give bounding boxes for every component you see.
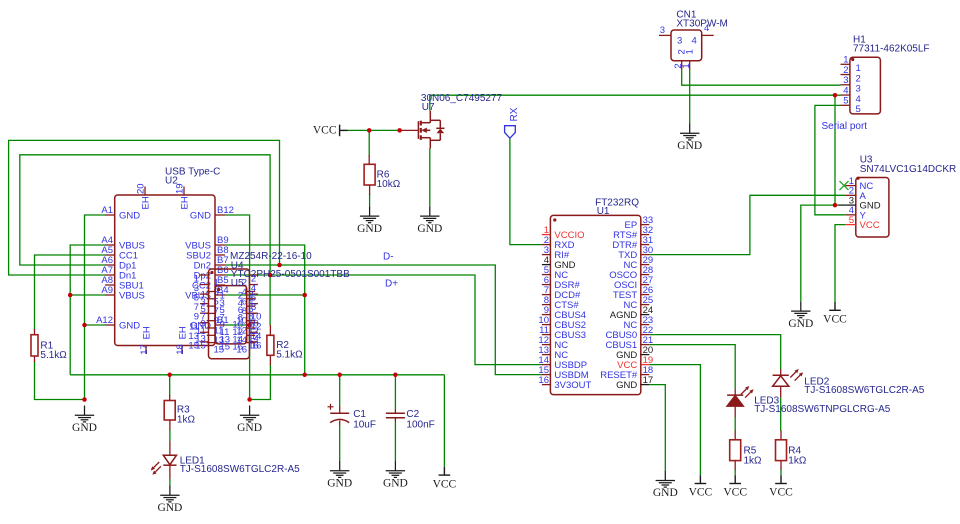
svg-text:GND: GND bbox=[72, 422, 97, 434]
LED LED1 TJ-S1608SW6TGLC2R-A5 bbox=[163, 455, 176, 465]
wire A7 Dn1 loop bbox=[9, 140, 280, 275]
svg-text:EH: EH bbox=[142, 326, 153, 339]
wire TXD to U3 A bbox=[649, 195, 845, 254]
junction C1 rail bbox=[337, 373, 342, 378]
C1 leads bbox=[339, 406, 341, 413]
svg-text:GND: GND bbox=[653, 487, 678, 499]
U5 pin 5 bbox=[207, 305, 216, 307]
U4 pin 13 bbox=[200, 331, 209, 333]
wire A1 GND to left vertical bbox=[85, 215, 106, 400]
svg-text:17: 17 bbox=[139, 344, 150, 355]
U1 pin 6 DSR# bbox=[542, 284, 551, 286]
power VCC R4 bbox=[775, 475, 787, 483]
svg-text:15: 15 bbox=[195, 341, 206, 352]
U2 pin A6 Dp1 bbox=[105, 264, 115, 266]
U2 pin B8 SBU2 bbox=[215, 254, 225, 256]
U1 pin 20 GND bbox=[641, 354, 650, 356]
U2 pin B5 CC2 bbox=[215, 284, 225, 286]
U4 pin 6 bbox=[249, 293, 258, 295]
U5 pin 4 bbox=[247, 298, 256, 300]
U1 pin 23 NC bbox=[641, 324, 650, 326]
LED2 leads bbox=[780, 369, 782, 375]
svg-text:D+: D+ bbox=[385, 279, 398, 290]
svg-text:U5: U5 bbox=[231, 278, 244, 289]
svg-text:4: 4 bbox=[704, 23, 709, 34]
CN1 pin 2 bbox=[681, 61, 683, 70]
U1 pin 7 DCD# bbox=[542, 294, 551, 296]
wire CN1 pin 2 to H1 pin 3 bbox=[682, 70, 841, 85]
R4 leads bbox=[780, 430, 782, 439]
wire A6 Dp1 loop bbox=[20, 155, 270, 275]
wire drain to H1 pin 4 bbox=[430, 94, 841, 96]
U5 pin 15 bbox=[207, 342, 216, 344]
U3 no-connect X on pin 1 bbox=[840, 181, 849, 190]
wire B1 GND bbox=[225, 324, 250, 326]
U4 pin 4 bbox=[249, 284, 258, 286]
svg-text:VCC: VCC bbox=[433, 478, 457, 490]
wire R5 to VCC bbox=[734, 470, 736, 476]
wire pin 17 GND bbox=[649, 385, 665, 471]
wire C1 top bbox=[339, 375, 341, 406]
U1 pin 30 TXD bbox=[641, 254, 650, 256]
junction H1 pin4 branch bbox=[833, 93, 838, 98]
junction R6 VCC bbox=[367, 128, 372, 133]
U2 pin A8 SBU1 bbox=[105, 284, 115, 286]
svg-text:GND: GND bbox=[327, 478, 352, 490]
connector U2 USB Type-C body bbox=[115, 195, 215, 346]
U1 pin 15 USBDM bbox=[542, 374, 551, 376]
junction B4 VBUS bbox=[302, 293, 307, 298]
svg-text:VCC: VCC bbox=[769, 487, 793, 499]
U2 pin B1 GND bbox=[215, 324, 225, 326]
U4 pin 9 bbox=[200, 312, 209, 314]
resistor R6 10k bbox=[364, 164, 375, 185]
U5 pin 6 bbox=[247, 305, 256, 307]
R6 leads bbox=[368, 155, 370, 164]
svg-text:5.1kΩ: 5.1kΩ bbox=[276, 350, 303, 361]
wire RX to RXD bbox=[510, 138, 542, 244]
U1 pin 28 OSCO bbox=[641, 274, 650, 276]
U5 pin 12 bbox=[247, 327, 256, 329]
wire A4 VBUS bbox=[70, 245, 105, 375]
U5 pin 16 bbox=[247, 342, 256, 344]
svg-text:GND: GND bbox=[383, 478, 408, 490]
U4 pin 12 bbox=[249, 322, 258, 324]
R3 leads bbox=[169, 395, 171, 401]
svg-text:1kΩ: 1kΩ bbox=[788, 455, 807, 466]
wire LED1 to GND bbox=[169, 479, 171, 486]
U1 pin 14 USBDP bbox=[542, 364, 551, 366]
svg-text:EH: EH bbox=[141, 196, 152, 209]
U4 pin 1 bbox=[200, 274, 209, 276]
wire VCC to gate bbox=[348, 129, 400, 131]
svg-text:GND: GND bbox=[119, 210, 140, 221]
svg-text:U7: U7 bbox=[422, 102, 435, 113]
U1 pin 10 CBUS2 bbox=[542, 324, 551, 326]
R2 leads bbox=[269, 325, 271, 336]
H1 pin 1 bbox=[841, 63, 850, 65]
wire pin 19 VCC bbox=[649, 365, 700, 476]
junction R3 on rail bbox=[167, 373, 172, 378]
svg-text:19: 19 bbox=[175, 183, 186, 194]
svg-text:Serial port: Serial port bbox=[822, 121, 868, 132]
wire VBUS rail bbox=[70, 374, 444, 376]
U1 pin 12 NC bbox=[542, 344, 551, 346]
U4 pin 3 bbox=[200, 284, 209, 286]
svg-text:GND: GND bbox=[119, 320, 140, 331]
U1 pin 4 GND bbox=[542, 264, 551, 266]
CN1 pin 3 bbox=[659, 34, 671, 36]
U3 pin 5 VCC bbox=[845, 224, 856, 226]
svg-text:1kΩ: 1kΩ bbox=[744, 455, 763, 466]
LED1 emission arrows bbox=[154, 462, 160, 468]
junction C2 rail bbox=[393, 373, 398, 378]
svg-text:16: 16 bbox=[248, 341, 259, 352]
R1 leads bbox=[34, 329, 36, 335]
svg-text:VCC: VCC bbox=[860, 220, 880, 231]
power VCC left bbox=[340, 125, 348, 137]
connector U5 YTC2PH25-0501S001TBB body bbox=[215, 286, 247, 344]
U4 pin 2 bbox=[249, 274, 258, 276]
svg-text:A12: A12 bbox=[96, 315, 113, 326]
U4 pin 16 bbox=[249, 341, 258, 343]
U4 pin 15 bbox=[200, 341, 209, 343]
wire D- net bbox=[225, 265, 542, 375]
wire R3 top bbox=[169, 375, 171, 396]
U1 pin 2 RXD bbox=[542, 244, 551, 246]
junction A9 VBUS bbox=[68, 293, 73, 298]
U5 pin 11 bbox=[207, 327, 216, 329]
U1 pin 19 VCC bbox=[641, 364, 650, 366]
U5 pin 13 bbox=[207, 334, 216, 336]
svg-text:GND: GND bbox=[237, 422, 262, 434]
svg-text:U1: U1 bbox=[597, 206, 610, 217]
junction B1 GND bbox=[247, 323, 252, 328]
U2 pin 18 EH bottom bbox=[181, 346, 183, 355]
U2 pin A7 Dn1 bbox=[105, 274, 115, 276]
wire B4 VBUS bbox=[225, 294, 305, 296]
R5 leads bbox=[734, 430, 736, 439]
svg-text:D-: D- bbox=[383, 252, 394, 263]
connector CN1 XT30PW-M body bbox=[671, 30, 702, 61]
junction VBUS rail right bbox=[302, 373, 307, 378]
H1 pin 3 bbox=[841, 84, 850, 86]
U2 pin B12 GND bbox=[215, 214, 225, 216]
svg-text:3: 3 bbox=[677, 36, 682, 47]
U1 pin 29 NC bbox=[641, 264, 650, 266]
U5 pin 3 bbox=[207, 298, 216, 300]
svg-text:VCC: VCC bbox=[823, 314, 847, 326]
U2 pin A9 VBUS bbox=[105, 294, 115, 296]
svg-text:VCC: VCC bbox=[313, 125, 337, 137]
U5 pin 8 bbox=[247, 312, 256, 314]
svg-text:TJ-S1608SW6TGLC2R-A5: TJ-S1608SW6TGLC2R-A5 bbox=[804, 385, 924, 396]
svg-text:16: 16 bbox=[538, 375, 549, 386]
U1 pin 22 CBUS0 bbox=[641, 334, 650, 336]
ground U3 bbox=[791, 301, 810, 317]
junction D- bbox=[277, 263, 282, 268]
svg-text:VBUS: VBUS bbox=[119, 290, 145, 301]
junction R2 GND bbox=[247, 397, 252, 402]
svg-text:A9: A9 bbox=[101, 285, 113, 296]
U4 pin 5 bbox=[200, 293, 209, 295]
power VCC U3 bbox=[829, 302, 841, 310]
wire R3 to LED1 bbox=[169, 429, 171, 441]
U1 pin 33 EP bbox=[641, 224, 650, 226]
U2 pin B6 Dp2 bbox=[215, 274, 225, 276]
U4 pin 14 bbox=[249, 331, 258, 333]
hierarchical label RX bbox=[505, 126, 516, 139]
U1 pin 9 CBUS4 bbox=[542, 314, 551, 316]
svg-text:1kΩ: 1kΩ bbox=[177, 414, 196, 425]
wire R4 to VCC bbox=[780, 470, 782, 476]
resistor R4 1k bbox=[776, 440, 787, 461]
svg-text:16: 16 bbox=[232, 342, 243, 353]
U1 pin 1 VCCIO bbox=[542, 234, 551, 236]
U1 pin1 marker bbox=[553, 218, 556, 221]
wire R2 bottom to GND bbox=[250, 364, 271, 400]
svg-text:18: 18 bbox=[175, 344, 186, 355]
wire A12 GND bbox=[85, 324, 106, 326]
ground R6 bbox=[360, 206, 379, 222]
IC U1 FT232RQ body bbox=[550, 215, 640, 394]
power VCC R5 bbox=[729, 475, 741, 483]
CN1 pin 4 bbox=[702, 34, 714, 36]
junction D+ bbox=[268, 273, 273, 278]
ground C1 bbox=[330, 461, 349, 477]
power VCC pin19 bbox=[695, 475, 707, 483]
svg-text:15: 15 bbox=[220, 342, 231, 353]
U7 gate lead bbox=[400, 129, 418, 131]
wire B9 VBUS bbox=[225, 245, 305, 375]
C2 leads bbox=[394, 409, 396, 413]
U1 pin 24 AGND bbox=[641, 314, 650, 316]
junction U3 GND net bbox=[833, 203, 838, 208]
wire CBUS0 to LED2 bbox=[649, 335, 780, 369]
U5 pin 2 bbox=[247, 291, 256, 293]
svg-text:5: 5 bbox=[843, 96, 848, 107]
wire CN1 pin 1 to GND bbox=[689, 70, 691, 123]
U1 pin 3 RI# bbox=[542, 254, 551, 256]
svg-text:RX: RX bbox=[509, 107, 520, 121]
CN1 pin 1 bbox=[689, 61, 691, 70]
U1 pin 27 OSCI bbox=[641, 284, 650, 286]
svg-text:100nF: 100nF bbox=[406, 419, 434, 430]
svg-text:5.1kΩ: 5.1kΩ bbox=[40, 350, 67, 361]
U4 pin 8 bbox=[249, 303, 258, 305]
svg-text:GND: GND bbox=[357, 223, 382, 235]
U1 pin 31 DTR# bbox=[641, 244, 650, 246]
svg-text:TJ-S1608SW6TGLC2R-A5: TJ-S1608SW6TGLC2R-A5 bbox=[180, 464, 300, 475]
H1 pin1 marker bbox=[851, 58, 854, 61]
wire C2 bottom bbox=[394, 422, 396, 462]
U2 pin 19 EH top bbox=[183, 187, 185, 196]
svg-text:GND: GND bbox=[157, 502, 182, 514]
svg-text:VCC: VCC bbox=[689, 487, 713, 499]
U4 pin 10 bbox=[249, 312, 258, 314]
U2 pin A12 GND bbox=[105, 324, 115, 326]
U5 pin 10 bbox=[247, 320, 256, 322]
wire C2 top bbox=[394, 375, 396, 409]
svg-text:1: 1 bbox=[681, 63, 692, 68]
svg-text:GND: GND bbox=[190, 210, 211, 221]
svg-text:YTC2PH25-0501S001TBB: YTC2PH25-0501S001TBB bbox=[231, 269, 350, 280]
wire U3 Y to H1 pin 5 bbox=[815, 105, 845, 214]
svg-text:XT30PW-M: XT30PW-M bbox=[676, 19, 728, 30]
H1 pin 2 bbox=[841, 74, 850, 76]
U2 pin 20 EH top bbox=[144, 187, 146, 196]
wire R6 top bbox=[368, 130, 370, 156]
ground C2 bbox=[386, 461, 405, 477]
wire VCC drop from rail bbox=[443, 375, 445, 467]
LED LED3 TJ-S1608SW6TNPGLCRG-A5 bbox=[727, 394, 743, 396]
svg-text:5: 5 bbox=[849, 215, 854, 226]
LED1 leads bbox=[169, 441, 171, 455]
junction R1 GND bbox=[82, 397, 87, 402]
power VCC under rail bbox=[439, 467, 451, 475]
junction A12 GND bbox=[82, 323, 87, 328]
svg-text:GND: GND bbox=[788, 318, 813, 330]
wire U3 VCC bbox=[835, 225, 845, 302]
U1 pin 32 RTS# bbox=[641, 234, 650, 236]
svg-text:3: 3 bbox=[660, 25, 665, 36]
svg-text:B12: B12 bbox=[217, 205, 234, 216]
wire H1 pin 4 branch to GND bbox=[834, 95, 836, 205]
wire C1 bottom bbox=[339, 425, 341, 461]
svg-text:EH: EH bbox=[180, 196, 191, 209]
wire LED2 to R4 bbox=[780, 398, 782, 432]
ground U1 pin17 bbox=[656, 471, 675, 487]
svg-text:5: 5 bbox=[856, 104, 861, 115]
U1 pin 8 CTS# bbox=[542, 304, 551, 306]
wire A5 CC1 to R1 bbox=[35, 255, 106, 330]
svg-text:A1: A1 bbox=[101, 205, 113, 216]
wire U3 GND black stub segment bbox=[839, 204, 846, 206]
wire LED3 to R5 bbox=[734, 418, 736, 432]
svg-text:4: 4 bbox=[692, 36, 697, 47]
U2 pin A4 VBUS bbox=[105, 244, 115, 246]
LED LED2 TJ-S1608SW6TGLC2R-A5 bbox=[773, 374, 789, 376]
svg-text:SN74LVC1G14DCKR: SN74LVC1G14DCKR bbox=[860, 164, 957, 175]
ground R2 chain bbox=[240, 406, 259, 422]
wire R6 bottom bbox=[369, 194, 371, 206]
capacitor C2 100nF bbox=[386, 413, 405, 418]
IC U3 SN74LVC1G14DCKR body bbox=[856, 178, 889, 238]
wire CBUS1 to LED3 bbox=[649, 345, 735, 389]
svg-text:GND: GND bbox=[677, 140, 702, 152]
U1 pin 18 RESET# bbox=[641, 374, 650, 376]
svg-text:VCC: VCC bbox=[723, 487, 747, 499]
svg-text:17: 17 bbox=[643, 375, 654, 386]
U4 pin 7 bbox=[200, 303, 209, 305]
svg-text:10kΩ: 10kΩ bbox=[377, 179, 401, 190]
U5 pin 9 bbox=[207, 320, 216, 322]
U1 pin 11 CBUS3 bbox=[542, 334, 551, 336]
U3 pin 2 A bbox=[845, 194, 856, 196]
svg-text:1: 1 bbox=[685, 49, 696, 54]
U1 pin 16 3V3OUT bbox=[542, 384, 551, 386]
ground CN1 bbox=[680, 124, 699, 140]
wire D+ net bbox=[225, 275, 542, 365]
U5 pin1 marker bbox=[217, 288, 220, 291]
svg-text:EH: EH bbox=[178, 326, 189, 339]
U3 pin 3 GND bbox=[845, 204, 856, 206]
resistor R5 1k bbox=[730, 440, 741, 461]
LED3 leads bbox=[734, 389, 736, 395]
svg-text:GND: GND bbox=[417, 223, 442, 235]
U4 pin 11 bbox=[200, 322, 209, 324]
svg-text:20: 20 bbox=[136, 183, 147, 194]
svg-text:TJ-S1608SW6TNPGLCRG-A5: TJ-S1608SW6TNPGLCRG-A5 bbox=[754, 404, 891, 415]
U5 pin 1 bbox=[207, 291, 216, 293]
wire U7 source down bbox=[429, 149, 431, 207]
U3 pin1 marker bbox=[856, 177, 859, 180]
transistor U7 30N06_C7495277 bbox=[418, 111, 444, 149]
U1 pin 13 NC bbox=[542, 354, 551, 356]
LED2 emission arrows bbox=[790, 372, 796, 378]
U2 pin 17 EH bottom bbox=[145, 346, 147, 355]
wire B12 GND bbox=[225, 215, 250, 400]
U2 pin A1 GND bbox=[105, 214, 115, 216]
connector H1 77311-462K05LF body bbox=[850, 57, 881, 114]
ground LED1 bbox=[160, 486, 179, 502]
U4 pin1 marker bbox=[210, 271, 213, 274]
U1 pin 21 CBUS1 bbox=[641, 344, 650, 346]
H1 pin 4 bbox=[841, 94, 850, 96]
U2 pin A5 CC1 bbox=[105, 254, 115, 256]
wire R2 top to D+ bbox=[269, 275, 271, 326]
svg-text:77311-462K05LF: 77311-462K05LF bbox=[853, 43, 930, 54]
wire R1 bottom to GND bbox=[35, 361, 85, 400]
H1 pin 5 bbox=[841, 104, 850, 106]
ground U7 source bbox=[420, 206, 439, 222]
connector U4 MZ254R-22-16-10 body bbox=[209, 269, 250, 359]
wire U3 GND bbox=[801, 205, 839, 301]
resistor R2 5.1k bbox=[267, 335, 274, 355]
junction gate wire bbox=[397, 128, 402, 133]
U2 pin B9 VBUS bbox=[215, 244, 225, 246]
svg-text:GND: GND bbox=[616, 380, 637, 391]
U1 pin 17 GND bbox=[641, 384, 650, 386]
svg-text:10uF: 10uF bbox=[353, 419, 376, 430]
resistor R3 1k bbox=[164, 401, 175, 421]
resistor R1 5.1k bbox=[31, 335, 38, 356]
U2 pin B7 Dn2 bbox=[215, 264, 225, 266]
U3 pin 4 Y bbox=[845, 214, 856, 216]
ground R1 chain bbox=[75, 406, 94, 422]
U5 pin 7 bbox=[207, 312, 216, 314]
U1 pin 26 TEST bbox=[641, 294, 650, 296]
U3 pin 1 NC bbox=[845, 185, 856, 187]
LED3 emission arrows bbox=[741, 389, 747, 395]
U5 pin 14 bbox=[247, 334, 256, 336]
U1 pin 5 NC bbox=[542, 274, 551, 276]
svg-text:3V3OUT: 3V3OUT bbox=[554, 380, 591, 391]
U1 pin 25 NC bbox=[641, 304, 650, 306]
wire A9 VBUS bbox=[70, 294, 105, 296]
wire U7 drain up bbox=[429, 95, 431, 111]
capacitor C1 10uF polarized bbox=[328, 404, 350, 423]
U2 pin B4 VBUS bbox=[215, 294, 225, 296]
